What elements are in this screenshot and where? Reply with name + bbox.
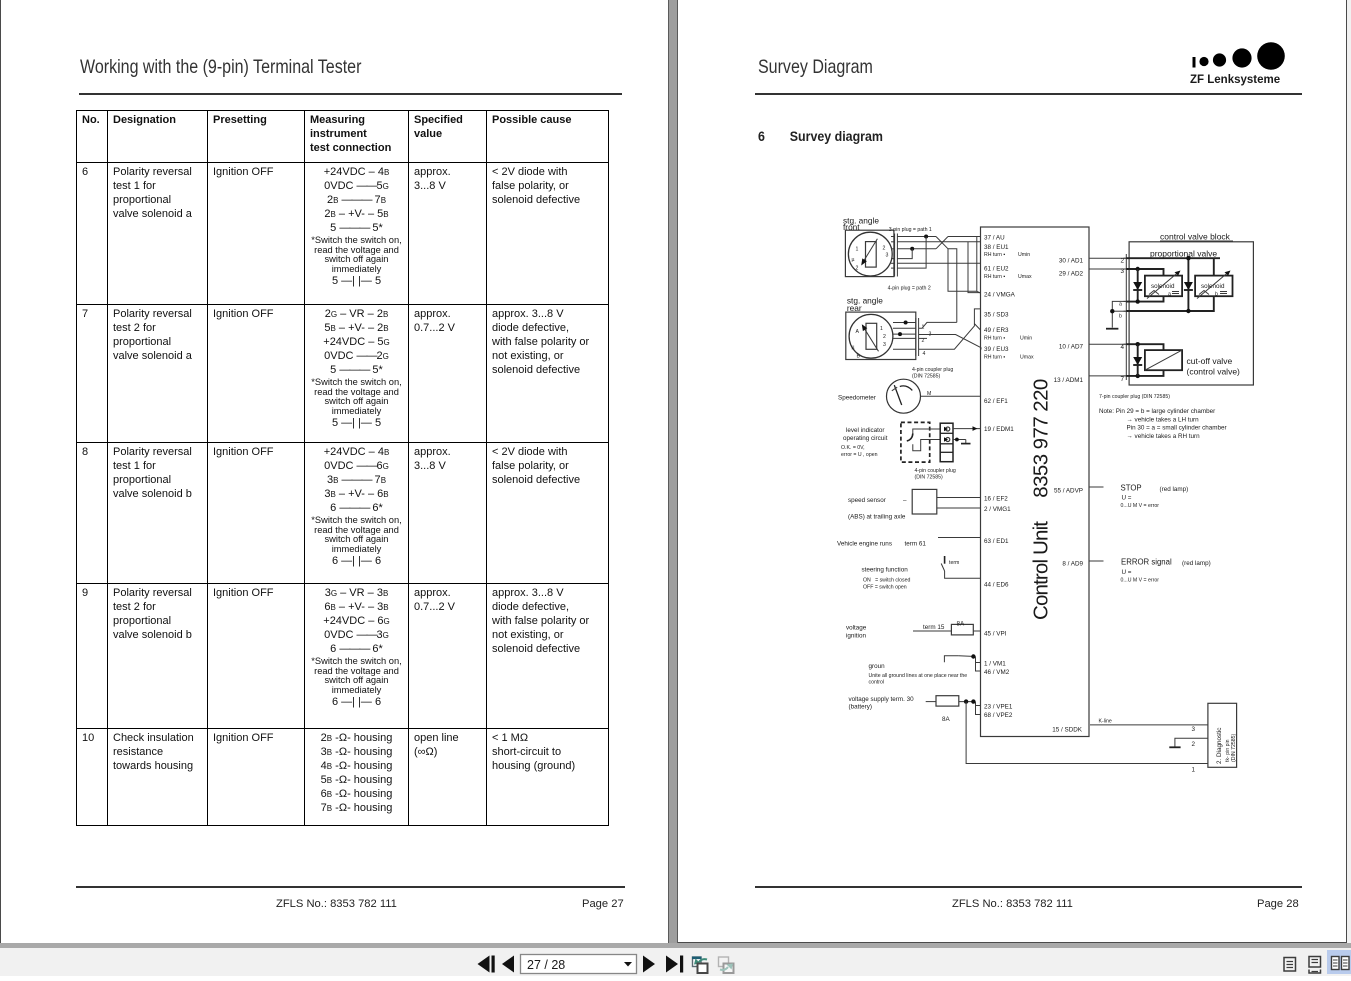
cut-off valve V1 bbox=[1145, 350, 1182, 370]
diode D1 vertical bbox=[1137, 269, 1139, 302]
wire 29/AD2 to valve block bbox=[1089, 268, 1126, 270]
wire 10/AD7 to valve block bbox=[1089, 343, 1126, 345]
long vertical wire to rear sensor pin 1 bbox=[948, 249, 957, 323]
solenoid a bottom rail bbox=[1126, 296, 1163, 301]
wire ground to VM1/VM2 bbox=[959, 655, 976, 658]
svg-text:B: B bbox=[857, 353, 861, 359]
svg-text:7-pin coupler plug (DIN 72585): 7-pin coupler plug (DIN 72585) bbox=[1099, 394, 1170, 400]
svg-text:1: 1 bbox=[1192, 767, 1196, 774]
cut-off valve rails bbox=[1126, 344, 1163, 350]
wire speed sensor to 2/VMG1 bbox=[937, 507, 981, 509]
wire term15 bbox=[913, 630, 951, 632]
svg-text:10 / AD7: 10 / AD7 bbox=[1059, 344, 1084, 351]
wire rear pin3 to 39/EU3 bbox=[919, 335, 981, 350]
svg-text:3: 3 bbox=[883, 342, 886, 348]
svg-text:Unite all ground lines at one: Unite all ground lines at one place near… bbox=[869, 673, 968, 679]
solenoid a Y1 bbox=[1145, 276, 1182, 297]
svg-text:solenoid: solenoid bbox=[1201, 283, 1225, 290]
svg-text:4-pin coupler plug: 4-pin coupler plug bbox=[912, 367, 953, 373]
svg-text:23 / VPE1: 23 / VPE1 bbox=[984, 704, 1013, 711]
svg-text:24 / VMGA: 24 / VMGA bbox=[984, 292, 1016, 299]
wire speedometer to 62/EF1 bbox=[921, 395, 981, 397]
svg-text:4-pin coupler plug: 4-pin coupler plug bbox=[915, 468, 956, 474]
diode D3 vertical bbox=[1137, 344, 1139, 376]
svg-text:(ABS) at trailing axle: (ABS) at trailing axle bbox=[848, 514, 906, 521]
diagnostic connector X1 bbox=[1208, 703, 1237, 767]
svg-text:1: 1 bbox=[880, 326, 883, 332]
wire down to 24/VMGA bbox=[948, 249, 977, 291]
solenoid b bottom rail bbox=[1126, 296, 1214, 311]
svg-text:37 / AU: 37 / AU bbox=[984, 235, 1005, 242]
level switch contact inside bbox=[913, 429, 940, 434]
svg-text:U =: U = bbox=[1122, 569, 1132, 576]
ground symbol level indicator bbox=[961, 443, 971, 445]
svg-text:2. Diagnostic: 2. Diagnostic bbox=[1216, 728, 1223, 764]
svg-text:groun: groun bbox=[869, 663, 886, 670]
svg-text:voltage: voltage bbox=[846, 625, 867, 632]
svg-text:Umin: Umin bbox=[1018, 252, 1030, 258]
svg-text:rear: rear bbox=[847, 303, 862, 313]
svg-text:55 / ADVP: 55 / ADVP bbox=[1054, 488, 1083, 495]
rear connector 4-pin coupler bars bbox=[915, 318, 917, 356]
wire to ground from connector bbox=[953, 439, 966, 441]
svg-text:term 61: term 61 bbox=[905, 541, 927, 548]
front connector 3-pin/4-pin plug bars bbox=[894, 234, 896, 277]
solenoid b Y2 bbox=[1195, 276, 1232, 297]
return bracket to ground bbox=[1112, 301, 1126, 327]
svg-text:4-pin plug = path 2: 4-pin plug = path 2 bbox=[888, 286, 931, 292]
svg-text:level indicator: level indicator bbox=[846, 427, 885, 434]
diode D2 symbol bbox=[1184, 282, 1193, 290]
svg-text:U =: U = bbox=[1122, 495, 1132, 502]
wiper arrow rear sensor bbox=[865, 329, 879, 352]
svg-text:(battery): (battery) bbox=[849, 704, 872, 711]
svg-text:RH turn ▪: RH turn ▪ bbox=[984, 355, 1005, 361]
svg-text:OFF = switch open: OFF = switch open bbox=[863, 585, 907, 591]
svg-text:16 / EF2: 16 / EF2 bbox=[984, 496, 1008, 503]
7-pin coupler bar bbox=[1125, 254, 1127, 380]
svg-text:44 / ED6: 44 / ED6 bbox=[984, 582, 1009, 589]
svg-text:46 / VM2: 46 / VM2 bbox=[984, 669, 1010, 676]
svg-text:13 / ADM1: 13 / ADM1 bbox=[1054, 377, 1084, 384]
svg-text:M: M bbox=[927, 391, 931, 397]
rail pin3 to solenoid a bbox=[1126, 269, 1163, 276]
ground symbol G2 bbox=[1106, 328, 1118, 330]
svg-text:63 / ED1: 63 / ED1 bbox=[984, 538, 1009, 545]
wire to pin 37/AU bbox=[948, 236, 981, 238]
svg-text:39 / EU3: 39 / EU3 bbox=[984, 346, 1009, 353]
svg-text:solenoid: solenoid bbox=[1151, 283, 1175, 290]
ZF Lenksysteme logo bbox=[1190, 38, 1295, 88]
svg-text:8A: 8A bbox=[957, 621, 966, 628]
svg-text:a: a bbox=[1119, 302, 1122, 308]
svg-text:61 / EU2: 61 / EU2 bbox=[984, 265, 1009, 272]
svg-text:0...U M V = error: 0...U M V = error bbox=[1121, 578, 1160, 584]
svg-text:Note: Pin 29 = b = large cylin: Note: Pin 29 = b = large cylinder chambe… bbox=[1099, 408, 1215, 415]
svg-text:62 / EF1: 62 / EF1 bbox=[984, 398, 1008, 405]
svg-text:Control Unit: Control Unit bbox=[1030, 521, 1053, 620]
svg-text:8A: 8A bbox=[942, 716, 951, 723]
svg-text:3: 3 bbox=[886, 253, 889, 259]
continuous icon bbox=[1309, 957, 1321, 974]
svg-text:15 / SDDK: 15 / SDDK bbox=[1052, 727, 1083, 734]
wire branch to 49/ER3 bbox=[974, 324, 980, 330]
svg-text:1 / VM1: 1 / VM1 bbox=[984, 661, 1006, 668]
svg-text:19 / EDM1: 19 / EDM1 bbox=[984, 426, 1014, 433]
switch S1 steering function bbox=[944, 556, 946, 564]
svg-text:µ: µ bbox=[852, 257, 855, 263]
facing pages icon highlighted bbox=[1327, 950, 1351, 974]
wire front pin3 with junction bbox=[897, 248, 936, 250]
svg-text:2: 2 bbox=[856, 266, 859, 272]
wire rear pin1 up to path1 bbox=[919, 322, 957, 328]
wire rear pin4 to 35/SD3 bbox=[919, 309, 981, 349]
svg-text:term: term bbox=[949, 560, 959, 566]
svg-text:voltage supply term. 30: voltage supply term. 30 bbox=[849, 696, 915, 703]
svg-text:3: 3 bbox=[1192, 726, 1196, 733]
svg-text:µ: µ bbox=[852, 344, 855, 350]
contact circles in connector bbox=[946, 427, 950, 431]
svg-text:68 / VPE2: 68 / VPE2 bbox=[984, 712, 1013, 719]
wire 55/ADVP to STOP lamp bbox=[1089, 486, 1104, 488]
svg-text:b: b bbox=[1119, 314, 1122, 320]
svg-text:45 / VPI: 45 / VPI bbox=[984, 631, 1007, 638]
svg-text:(red lamp): (red lamp) bbox=[1160, 486, 1189, 493]
wire to pin 61/EU2 bbox=[897, 262, 980, 264]
svg-text:49 / ER3: 49 / ER3 bbox=[984, 327, 1009, 334]
wire rear pin2 stub bbox=[919, 337, 927, 339]
circuit schematic SVG bbox=[678, 0, 1347, 943]
svg-text:b: b bbox=[1215, 292, 1218, 298]
svg-text:8 / AD9: 8 / AD9 bbox=[1062, 561, 1083, 568]
svg-text:2: 2 bbox=[1192, 741, 1196, 748]
svg-text:–: – bbox=[903, 497, 907, 504]
control unit U1 box bbox=[981, 227, 1090, 737]
level indicator connector grid bbox=[940, 423, 953, 462]
svg-text:error = U , open: error = U , open bbox=[841, 452, 878, 458]
svg-text:(DIN 72585): (DIN 72585) bbox=[912, 374, 941, 380]
level indicator dashed box S2 bbox=[901, 422, 930, 462]
svg-text:K-line: K-line bbox=[1099, 719, 1112, 725]
ground symbol G3 and wire to diagnostic pin 2 bbox=[1175, 738, 1208, 747]
K-line wire 15/SDDK to diagnostic pin 3 bbox=[1090, 724, 1208, 726]
wire to 19/EDM1 with arrow bbox=[953, 428, 981, 430]
svg-text:3-pin plug = path 1: 3-pin plug = path 1 bbox=[889, 227, 932, 233]
svg-text:(control valve): (control valve) bbox=[1187, 367, 1241, 377]
wiper arrow front sensor bbox=[864, 239, 877, 261]
svg-text:ignition: ignition bbox=[846, 633, 866, 640]
svg-text:→ vehicle takes a LH turn: → vehicle takes a LH turn bbox=[1127, 417, 1200, 424]
svg-text:term 15: term 15 bbox=[923, 624, 945, 631]
svg-text:2: 2 bbox=[883, 246, 886, 252]
fuse F2 8A bbox=[936, 696, 959, 706]
svg-text:STOP: STOP bbox=[1121, 484, 1142, 493]
svg-text:Umax: Umax bbox=[1018, 274, 1032, 280]
diode D2 vertical bbox=[1187, 258, 1189, 311]
steering angle sensor front B1 bbox=[845, 230, 894, 276]
svg-text:a: a bbox=[1168, 292, 1171, 298]
svg-text:→ vehicle takes a RH turn: → vehicle takes a RH turn bbox=[1127, 433, 1201, 440]
wire battery bbox=[926, 701, 936, 703]
diode D3 symbol bbox=[1133, 357, 1142, 365]
svg-text:3: 3 bbox=[1120, 268, 1124, 275]
svg-text:38 / EU1: 38 / EU1 bbox=[984, 244, 1009, 251]
svg-text:RH turn ▪: RH turn ▪ bbox=[984, 336, 1005, 342]
steering angle sensor rear B2 bbox=[846, 312, 916, 359]
svg-text:speed sensor: speed sensor bbox=[848, 497, 886, 504]
svg-text:RH turn ▪: RH turn ▪ bbox=[984, 274, 1005, 280]
svg-text:2 / VMG1: 2 / VMG1 bbox=[984, 506, 1011, 513]
fuse F1 8A bbox=[951, 624, 973, 635]
svg-text:operating circuit: operating circuit bbox=[843, 435, 888, 442]
svg-text:Umax: Umax bbox=[1020, 355, 1034, 361]
wire vertical to 24/VMGA second bbox=[968, 242, 981, 293]
svg-text:cut-off valve: cut-off valve bbox=[1187, 356, 1233, 366]
svg-text:control valve block: control valve block bbox=[1160, 232, 1231, 242]
svg-text:RH turn ▪: RH turn ▪ bbox=[984, 252, 1005, 258]
svg-text:control: control bbox=[869, 680, 885, 686]
svg-text:ON = switch closed: ON = switch closed bbox=[863, 578, 911, 584]
svg-text:8353 977 220: 8353 977 220 bbox=[1030, 379, 1053, 498]
solenoid top rail bbox=[1126, 257, 1220, 259]
svg-text:steering function: steering function bbox=[862, 567, 909, 574]
wire 13/ADM1 to valve block bbox=[1089, 375, 1126, 377]
svg-text:proportional valve: proportional valve bbox=[1150, 249, 1217, 259]
svg-text:Vehicle engine runs: Vehicle engine runs bbox=[837, 541, 892, 548]
svg-text:4: 4 bbox=[1120, 344, 1124, 351]
svg-text:27 / 28: 27 / 28 bbox=[527, 958, 565, 972]
speed sensor B3 box bbox=[912, 489, 937, 514]
svg-text:4: 4 bbox=[923, 351, 926, 357]
svg-text:7: 7 bbox=[1120, 376, 1124, 383]
svg-text:Speedometer: Speedometer bbox=[838, 395, 876, 402]
ground symbol G1 bbox=[944, 656, 958, 663]
wire 8/AD9 to ERROR lamp bbox=[1089, 560, 1104, 562]
svg-text:(DIN 72585): (DIN 72585) bbox=[1231, 733, 1237, 762]
svg-text:30 / AD1: 30 / AD1 bbox=[1059, 258, 1084, 265]
wire battery down to diagnostic pin 1 bbox=[966, 702, 1208, 764]
svg-text:ERROR signal: ERROR signal bbox=[1121, 558, 1172, 567]
crossover X path1 bbox=[936, 237, 948, 249]
junction dot bbox=[924, 235, 928, 239]
control valve block outer box bbox=[1129, 242, 1253, 385]
wire term61 to 63/ED1 bbox=[938, 537, 981, 539]
wire front pin1 to crossover bbox=[897, 236, 936, 238]
svg-text:35 / SD3: 35 / SD3 bbox=[984, 311, 1009, 318]
svg-text:2: 2 bbox=[1120, 258, 1124, 265]
svg-text:29 / AD2: 29 / AD2 bbox=[1059, 270, 1084, 277]
svg-text:0...U M V = error: 0...U M V = error bbox=[1121, 503, 1160, 509]
svg-text:1: 1 bbox=[856, 247, 859, 253]
wire to VPE1/VPE2 bbox=[976, 702, 981, 715]
svg-text:Pin 30 = a = small cylinder ch: Pin 30 = a = small cylinder chamber bbox=[1127, 425, 1227, 432]
svg-text:A: A bbox=[856, 329, 860, 335]
svg-text:(red lamp): (red lamp) bbox=[1182, 560, 1211, 567]
svg-text:O.K. = 0V,: O.K. = 0V, bbox=[841, 445, 865, 451]
wire speed sensor to 16/EF2 bbox=[937, 497, 981, 499]
svg-text:Umin: Umin bbox=[1020, 336, 1032, 342]
wire 30/AD1 to valve block bbox=[1089, 257, 1126, 259]
svg-text:(DIN 72585): (DIN 72585) bbox=[915, 475, 944, 481]
svg-text:2: 2 bbox=[883, 334, 886, 340]
wire loop from dot down to plug bbox=[897, 237, 926, 269]
single page icon bbox=[1284, 958, 1296, 972]
wire front pin2 to pin 38/EU1 bbox=[897, 241, 980, 243]
diode D1 symbol bbox=[1133, 282, 1142, 290]
